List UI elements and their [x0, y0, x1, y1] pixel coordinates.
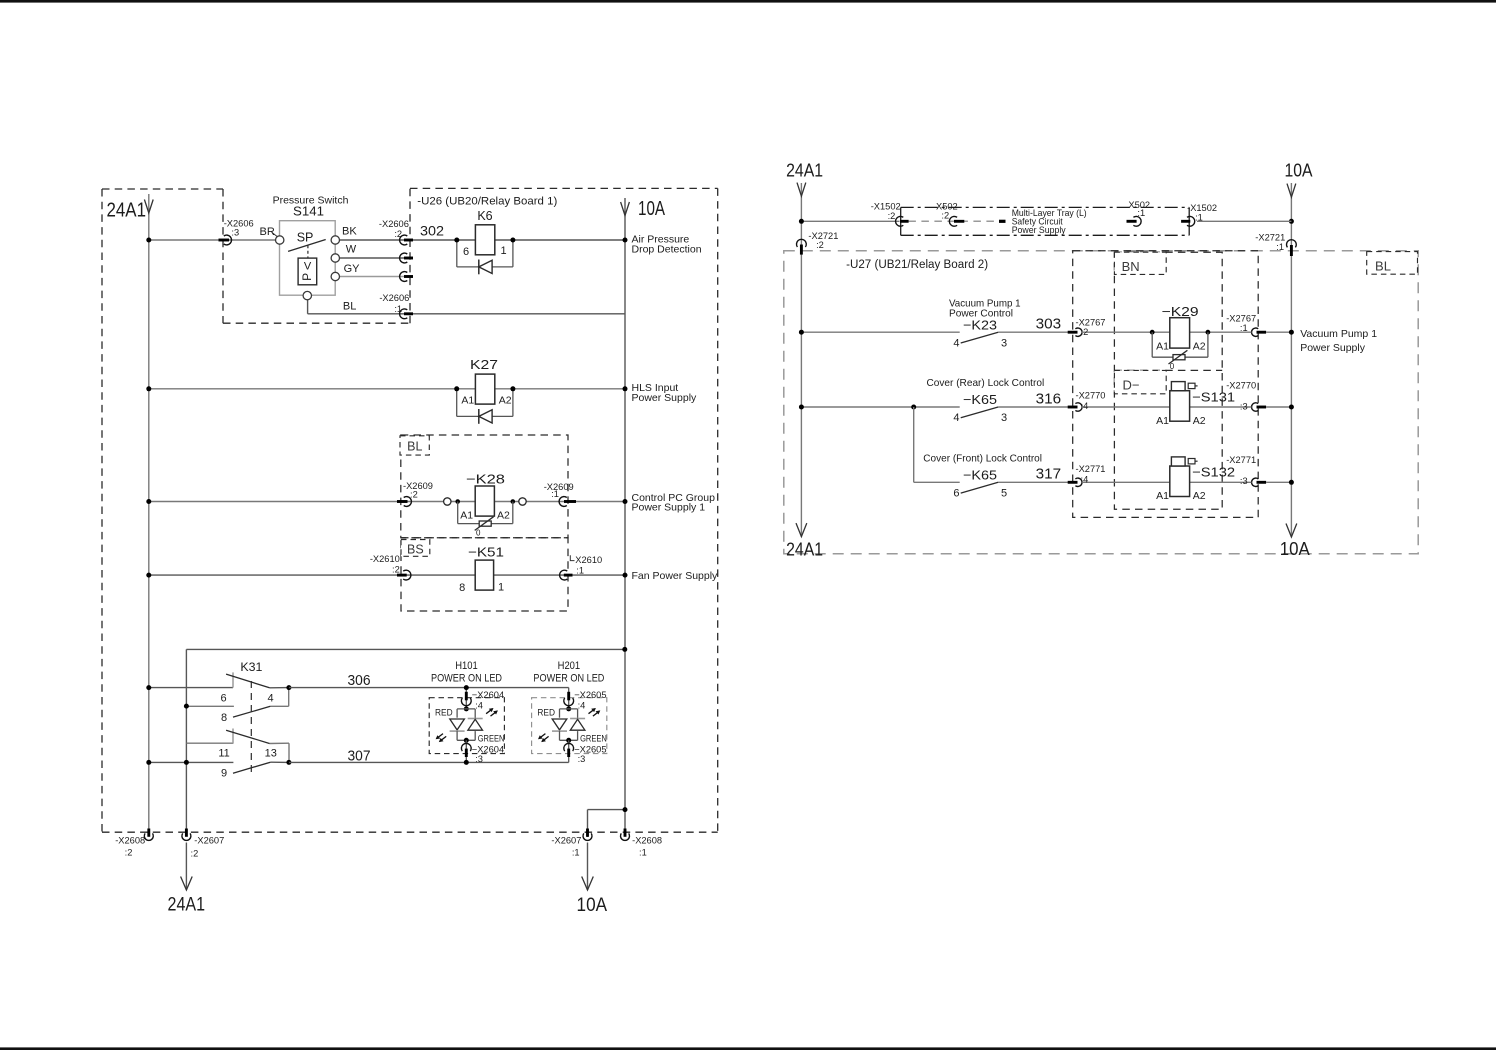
- svg-text:-X2606: -X2606: [379, 293, 409, 303]
- svg-text:5: 5: [1001, 487, 1007, 499]
- svg-text:RED: RED: [537, 708, 555, 719]
- svg-text:-X2607: -X2607: [551, 835, 581, 845]
- svg-text:POWER ON LED: POWER ON LED: [431, 673, 502, 685]
- svg-text:-U27 (UB21/Relay Board 2): -U27 (UB21/Relay Board 2): [846, 259, 988, 271]
- svg-text:8: 8: [459, 582, 465, 594]
- svg-text:Drop Detection: Drop Detection: [632, 243, 702, 255]
- svg-text::2: :2: [816, 240, 824, 250]
- svg-text:GY: GY: [344, 263, 361, 275]
- svg-text:-X2609: -X2609: [403, 481, 433, 491]
- svg-text:10A: 10A: [638, 198, 665, 220]
- svg-text:A2: A2: [1193, 490, 1206, 502]
- svg-text:Power Supply: Power Supply: [1300, 342, 1366, 354]
- svg-text::2: :2: [410, 490, 418, 500]
- svg-text:POWER ON LED: POWER ON LED: [533, 673, 604, 685]
- svg-text::1: :1: [1195, 213, 1203, 223]
- svg-text:Vacuum Pump 1: Vacuum Pump 1: [1300, 328, 1377, 340]
- svg-text:303: 303: [1036, 317, 1062, 333]
- svg-text:-X2606: -X2606: [379, 219, 409, 229]
- svg-text::3: :3: [1240, 476, 1248, 486]
- svg-text:Fan Power Supply: Fan Power Supply: [632, 570, 719, 582]
- svg-text:A2: A2: [499, 394, 512, 406]
- svg-text:4: 4: [953, 337, 959, 349]
- svg-text:Power Supply: Power Supply: [1012, 225, 1066, 235]
- svg-text:306: 306: [348, 673, 371, 689]
- svg-text:H101: H101: [455, 660, 478, 672]
- svg-text:−S132: −S132: [1192, 465, 1235, 480]
- svg-text:10A: 10A: [1285, 160, 1314, 181]
- svg-text::4: :4: [475, 700, 483, 710]
- svg-text::3: :3: [1240, 401, 1248, 411]
- svg-text:10A: 10A: [1280, 538, 1311, 559]
- svg-text::2: :2: [125, 848, 133, 858]
- svg-text:A1: A1: [460, 509, 473, 521]
- svg-text:S141: S141: [293, 205, 324, 219]
- svg-text:K27: K27: [470, 358, 498, 372]
- svg-text:24A1: 24A1: [107, 200, 147, 222]
- svg-text:BN: BN: [1122, 259, 1140, 274]
- svg-text:6: 6: [220, 693, 226, 705]
- svg-text:−K29: −K29: [1162, 304, 1199, 319]
- svg-text:BR: BR: [260, 226, 275, 238]
- svg-text:D−: D−: [1123, 377, 1140, 392]
- svg-text:RED: RED: [435, 708, 453, 719]
- svg-text:9: 9: [221, 768, 227, 780]
- svg-text:302: 302: [420, 224, 444, 239]
- svg-text:317: 317: [1036, 467, 1062, 483]
- svg-text:24A1: 24A1: [786, 539, 823, 560]
- svg-text:A2: A2: [1193, 415, 1206, 427]
- svg-text:−K28: −K28: [466, 471, 505, 486]
- svg-text:307: 307: [348, 748, 371, 764]
- svg-text::4: :4: [578, 700, 586, 710]
- svg-text::1: :1: [572, 848, 580, 858]
- svg-text::2: :2: [941, 210, 949, 220]
- svg-text:Cover (Front) Lock Control: Cover (Front) Lock Control: [923, 453, 1042, 465]
- svg-text::1: :1: [576, 565, 584, 575]
- svg-text:1: 1: [498, 581, 504, 593]
- svg-text::1: :1: [551, 489, 559, 499]
- svg-text:Power Control: Power Control: [949, 307, 1013, 319]
- svg-text:6: 6: [953, 487, 959, 499]
- svg-text:−X2605: −X2605: [574, 690, 606, 700]
- svg-text:P: P: [300, 273, 314, 281]
- svg-text::1: :1: [639, 848, 647, 858]
- svg-text:-X2607: -X2607: [194, 835, 224, 845]
- svg-text:24A1: 24A1: [786, 160, 823, 181]
- svg-text:-X2608: -X2608: [115, 835, 145, 845]
- svg-text:10A: 10A: [577, 895, 608, 916]
- svg-text:316: 316: [1036, 391, 1062, 407]
- svg-text:BL: BL: [343, 300, 356, 312]
- svg-text:V: V: [304, 261, 312, 273]
- svg-text:−K65: −K65: [963, 392, 997, 407]
- svg-text:8: 8: [221, 712, 227, 724]
- svg-text:24A1: 24A1: [168, 895, 206, 916]
- svg-text:-U26 (UB20/Relay Board 1): -U26 (UB20/Relay Board 1): [417, 195, 557, 207]
- svg-text:4: 4: [953, 412, 959, 424]
- svg-text:-X2608: -X2608: [632, 835, 662, 845]
- svg-text:−K51: −K51: [468, 544, 504, 559]
- svg-text:A1: A1: [461, 394, 474, 406]
- svg-text:K31: K31: [240, 660, 262, 674]
- svg-text:-X2767: -X2767: [1076, 317, 1106, 327]
- svg-text:13: 13: [265, 747, 277, 759]
- svg-text:Cover (Rear) Lock Control: Cover (Rear) Lock Control: [927, 377, 1045, 389]
- svg-text:3: 3: [1001, 337, 1007, 349]
- svg-text:BL: BL: [1375, 259, 1391, 274]
- svg-text:GREEN: GREEN: [478, 734, 505, 745]
- svg-text:-X2770: -X2770: [1076, 391, 1106, 401]
- svg-text:−K23: −K23: [963, 317, 997, 332]
- svg-text:−S131: −S131: [1192, 390, 1235, 405]
- svg-text:3: 3: [1001, 412, 1007, 424]
- svg-text::2: :2: [888, 211, 896, 221]
- svg-text:−K65: −K65: [963, 468, 997, 483]
- svg-text:BS: BS: [407, 542, 424, 556]
- svg-text:0: 0: [476, 528, 481, 537]
- svg-text:Power Supply 1: Power Supply 1: [632, 502, 706, 514]
- svg-text:A2: A2: [497, 509, 510, 521]
- svg-text:A1: A1: [1156, 340, 1169, 352]
- svg-text::2: :2: [1081, 327, 1089, 337]
- svg-text::1: :1: [394, 304, 402, 314]
- svg-text:0: 0: [1170, 362, 1175, 371]
- svg-text::2: :2: [392, 564, 400, 574]
- svg-text::3: :3: [578, 754, 586, 764]
- svg-text:K6: K6: [477, 209, 492, 223]
- svg-text:A1: A1: [1156, 415, 1169, 427]
- svg-text::3: :3: [475, 754, 483, 764]
- svg-text:-X1502: -X1502: [871, 202, 901, 212]
- svg-text:W: W: [346, 244, 357, 256]
- svg-text:Power Supply: Power Supply: [632, 392, 698, 404]
- svg-text:BL: BL: [407, 440, 422, 454]
- svg-text:H201: H201: [558, 660, 581, 672]
- svg-text::1: :1: [1137, 208, 1145, 218]
- svg-text:-X2767: -X2767: [1226, 313, 1256, 323]
- svg-text::1: :1: [1240, 323, 1248, 333]
- svg-text:-X1502: -X1502: [1187, 203, 1217, 213]
- svg-text:-X2610: -X2610: [370, 554, 400, 564]
- svg-text::4: :4: [1081, 401, 1089, 411]
- svg-text:SP: SP: [297, 231, 314, 245]
- svg-text:6: 6: [463, 246, 469, 258]
- svg-text:BK: BK: [342, 225, 357, 237]
- svg-text:−X2604: −X2604: [472, 690, 504, 700]
- svg-text:A2: A2: [1193, 340, 1206, 352]
- svg-text:4: 4: [267, 693, 273, 705]
- svg-text:-X2771: -X2771: [1076, 464, 1106, 474]
- svg-text:X2610: X2610: [575, 555, 602, 565]
- svg-text::2: :2: [191, 849, 199, 859]
- svg-text:11: 11: [218, 747, 229, 759]
- svg-text::1: :1: [1276, 242, 1284, 252]
- svg-text::4: :4: [1081, 475, 1089, 485]
- svg-text:A1: A1: [1156, 490, 1169, 502]
- svg-text:1: 1: [500, 245, 506, 257]
- svg-text:GREEN: GREEN: [580, 734, 607, 745]
- svg-text::3: :3: [231, 227, 239, 237]
